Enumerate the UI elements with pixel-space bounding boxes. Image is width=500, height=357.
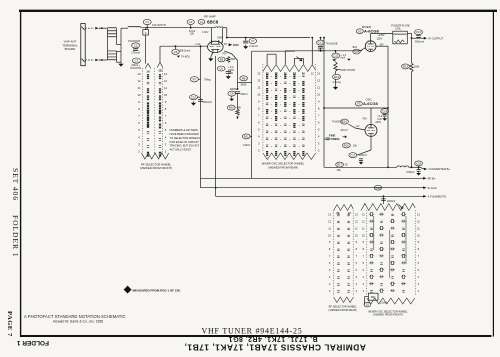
svg-text:8: 8 [363,247,365,251]
svg-text:11: 11 [257,86,260,90]
svg-text:56Ω: 56Ω [231,58,236,61]
svg-text:4: 4 [318,135,320,139]
grid resistor to test point [334,62,337,71]
svg-text:7: 7 [363,254,365,258]
svg-text:500mmf: 500mmf [203,101,212,104]
svg-text:3: 3 [356,282,358,286]
RF selector wheel viewed from rear [328,212,358,292]
wheel3 connects to filament bus [383,196,385,204]
svg-text:BIB-2mmf: BIB-2mmf [180,49,191,52]
svg-text:1.8mf: 1.8mf [202,31,209,34]
svg-text:C15: C15 [416,30,421,34]
svg-text:13A-NOTCH: 13A-NOTCH [152,24,166,27]
wheel1 top contact arrows [145,64,151,69]
svg-text:4: 4 [165,135,167,139]
osc grid components C16 10mmf [341,119,349,124]
wheel1 contact columns [147,74,149,79]
svg-text:-1.4V: -1.4V [195,43,201,46]
svg-text:6: 6 [363,261,365,265]
svg-text:6: 6 [356,261,358,265]
osc tube V3 [365,124,377,136]
R8 560K on divider [240,76,248,81]
svg-text:R7: R7 [193,77,197,81]
svg-text:R17: R17 [337,163,342,167]
svg-text:+135V: +135V [378,34,385,37]
svg-text:TUNING: TUNING [329,137,340,141]
VHF antenna terminal board [81,24,85,66]
wire into wheel2 left [238,82,252,84]
svg-text:R13: R13 [334,75,339,79]
svg-text:C10: C10 [191,95,196,99]
wheel3-left top sawtooth [334,205,354,211]
svg-text:1.5mH: 1.5mH [380,301,388,304]
svg-text:10k: 10k [353,144,358,147]
balun coil L1 top winding [108,27,117,30]
svg-text:8: 8 [418,247,420,251]
svg-text:C14: C14 [354,50,359,54]
svg-text:C13: C13 [333,54,338,58]
svg-text:V3: V3 [357,102,361,106]
svg-text:6: 6 [418,261,420,265]
svg-text:2: 2 [318,149,320,153]
svg-text:5: 5 [258,128,260,132]
wheel2 top sawtooth [263,65,316,72]
svg-text:4.7meg: 4.7meg [332,81,341,84]
svg-text:ON-NOTE: ON-NOTE [130,67,141,70]
svg-text:ACTUALLY EXIST.: ACTUALLY EXIST. [170,147,192,151]
tube cathode to ground [211,52,213,56]
svg-text:13: 13 [355,212,358,216]
svg-text:560K: 560K [241,83,247,86]
svg-text:7: 7 [209,42,210,44]
RF selector wheel viewed from front [137,72,167,154]
border frame [19,10,497,12]
R13 4.7meg [333,74,341,79]
svg-text:2: 2 [329,289,331,293]
svg-text:11: 11 [138,86,141,90]
osc injection trimmer C13 [332,53,340,58]
osc bypass C17 1000mf [349,153,357,158]
svg-text:1B: 1B [336,212,339,215]
svg-text:5: 5 [418,268,420,272]
wheel2 bottom zigzag [263,153,316,160]
svg-text:R15: R15 [403,65,408,69]
balun interconnect wires [107,39,109,52]
svg-text:3: 3 [258,142,260,146]
svg-text:3: 3 [165,142,167,146]
svg-text:160V: 160V [233,44,239,47]
svg-text:Howard W. Sams & Co., Inc. 195: Howard W. Sams & Co., Inc. 1958 [53,320,103,324]
svg-text:3: 3 [418,282,420,286]
AGC line capacitor C20 [374,185,381,190]
svg-text:13: 13 [137,72,141,76]
svg-text:12: 12 [164,79,168,83]
svg-text:7A NO10B: 7A NO10B [326,43,338,46]
svg-text:A PHOTOFACT STANDARD NOTATION: A PHOTOFACT STANDARD NOTATION SCHEMATIC [24,314,126,319]
svg-text:5: 5 [329,268,331,272]
svg-text:C7: C7 [251,39,255,43]
svg-text:4: 4 [418,275,420,279]
wheel3-right bottom zigzag [367,298,415,304]
svg-text:500mmf: 500mmf [415,40,424,43]
antenna lead wires [85,27,94,29]
svg-text:A-6CG8: A-6CG8 [363,101,378,106]
svg-text:RF AMP: RF AMP [204,15,216,19]
svg-text:(VIEWED FROM REAR): (VIEWED FROM REAR) [328,308,356,312]
svg-text:X FILAMENTS: X FILAMENTS [428,195,446,199]
C9 500mf bypass [237,88,239,90]
svg-text:13: 13 [362,212,365,216]
svg-text:C9: C9 [230,92,234,96]
svg-text:13: 13 [417,212,420,216]
plate load bus to mixer [227,37,310,39]
svg-text:1000mf: 1000mf [387,200,396,203]
svg-text:6: 6 [258,121,260,125]
svg-text:1000mf: 1000mf [358,154,367,157]
MIXER-OSC selector wheel viewed from front [362,212,420,292]
svg-text:5: 5 [363,268,365,272]
svg-text:1000mf: 1000mf [406,171,414,174]
svg-text:10: 10 [328,233,331,237]
svg-text:3: 3 [329,282,331,286]
svg-text:12: 12 [257,79,261,83]
svg-text:4: 4 [138,135,140,139]
svg-text:1e: 1e [302,71,305,75]
svg-text:FOLDER 1: FOLDER 1 [16,339,49,346]
svg-text:A-6CG8: A-6CG8 [364,29,379,34]
svg-text:13: 13 [317,72,321,76]
wheel1 bottom zigzag [142,153,169,159]
svg-text:5: 5 [318,128,320,132]
svg-text:TO SELECTOR WHEELS: TO SELECTOR WHEELS [170,136,201,140]
converter B+ bus [324,166,397,168]
svg-text:COIL: COIL [395,26,402,30]
svg-text:11: 11 [417,226,420,230]
R17 3.9k 15k divider [336,162,344,167]
svg-text:2: 2 [418,289,420,293]
svg-text:7: 7 [165,114,167,118]
svg-text:12K: 12K [190,33,195,36]
RF B+ bus [201,177,425,179]
svg-text:100k: 100k [414,65,420,68]
svg-text:3: 3 [363,282,365,286]
svg-text:-70V: -70V [221,52,226,55]
channel strip box 2 [143,30,149,35]
wheel1 centre dashed divider [153,68,155,153]
svg-text:9: 9 [418,240,420,244]
svg-text:C3: C3 [135,59,139,63]
svg-text:10: 10 [137,93,141,97]
svg-text:mmf: mmf [377,118,382,121]
wheel3-right column chain wires [373,216,375,250]
AGC decoupling R7 .7meg [190,77,198,82]
osc padder trimmer .5-3mmf [384,107,386,110]
svg-text:7: 7 [356,254,358,258]
svg-text:10: 10 [257,93,261,97]
svg-text:ON-NO106: ON-NO106 [128,40,141,43]
svg-text:2-3mmf: 2-3mmf [249,45,258,48]
svg-text:100mf: 100mf [243,144,250,147]
svg-text:C19: C19 [416,162,421,166]
svg-text:VHF TUNER #94E144-25: VHF TUNER #94E144-25 [201,326,302,335]
svg-text:11: 11 [355,226,358,230]
svg-text:IF AGC: IF AGC [428,186,437,190]
R11 100mf near wheel2 [242,134,250,139]
svg-text:5: 5 [165,128,167,132]
svg-text:170mmf: 170mmf [131,52,140,55]
svg-text:11: 11 [317,86,320,90]
svg-text:HAVE BEEN ASSIGNED: HAVE BEEN ASSIGNED [170,132,199,136]
svg-text:12: 12 [362,219,365,223]
svg-text:3: 3 [318,142,320,146]
RF plate coil [215,26,223,29]
svg-text:TRACING, BUT DO NOT: TRACING, BUT DO NOT [170,144,200,148]
svg-text:C6: C6 [219,67,223,71]
svg-text:6: 6 [318,121,320,125]
svg-text:ADMIRAL CHASSIS 17AB1, 17AK1,: ADMIRAL CHASSIS 17AB1, 17AK1, 17B1, [184,342,366,352]
svg-text:4: 4 [258,135,260,139]
svg-text:(VIEWED FROM FRONT): (VIEWED FROM FRONT) [140,166,172,170]
svg-text:7A-NO106: 7A-NO106 [332,120,344,123]
capacitor C3 callout cluster [132,58,140,63]
svg-text:7A-NO3: 7A-NO3 [181,56,190,59]
svg-text:RF B+: RF B+ [428,177,436,181]
svg-text:6BC8: 6BC8 [207,19,219,24]
svg-text:9: 9 [258,100,260,104]
svg-text:5: 5 [356,268,358,272]
svg-text:8: 8 [165,107,167,111]
svg-text:FOLDER 1: FOLDER 1 [11,215,20,257]
svg-text:10: 10 [355,233,358,237]
svg-text:1A: 1A [146,70,150,74]
IF takeoff resistor 100k [411,38,413,63]
mixer plate to picker coil [370,33,372,40]
C10 500mmf on AGC bus [190,95,198,100]
svg-text:11: 11 [362,226,365,230]
R10 68K to B+ [227,105,235,110]
svg-text:9: 9 [318,100,320,104]
svg-text:2: 2 [258,149,260,153]
svg-text:C1: C1 [145,20,149,24]
svg-text:L5: L5 [366,303,369,307]
grid coupling C5 [175,45,177,47]
grid wire from wheel to tube [159,46,161,62]
svg-text:10: 10 [362,233,365,237]
svg-text:V1: V1 [200,20,204,24]
svg-text:PAGE 7: PAGE 7 [6,311,13,337]
wheel2 feed cascade wires [266,54,268,64]
callout C4 with value [187,20,194,25]
svg-text:R16: R16 [344,144,349,148]
svg-text:C2: C2 [134,44,138,48]
wheel3-left contact marks [337,213,339,215]
measured-from note with diamond [124,286,132,294]
svg-text:MEASURED FROM POS 1 OF CW.: MEASURED FROM POS 1 OF CW. [133,288,181,292]
svg-text:3: 3 [138,142,140,146]
wheel2 contact columns [266,74,268,79]
svg-text:10: 10 [417,233,420,237]
svg-text:12: 12 [328,219,331,223]
svg-text:6: 6 [165,121,167,125]
svg-text:+115V: +115V [375,122,382,124]
svg-text:R8: R8 [242,76,246,80]
svg-text:11: 11 [328,226,331,230]
svg-text:7: 7 [138,114,140,118]
svg-text:9: 9 [138,100,140,104]
svg-text:BOARD: BOARD [65,47,77,51]
svg-text:5: 5 [138,128,140,132]
RF amp tube V1 6BC8 [208,41,224,52]
160V marker [229,43,233,46]
svg-text:2: 2 [221,42,222,44]
svg-text:8: 8 [318,107,320,111]
X filaments bus [216,195,425,197]
svg-text:4: 4 [363,275,365,279]
callout C1 oval [143,19,151,24]
wire antenna to series coil [121,27,128,29]
fine tuning trimmer right of line [326,138,330,140]
grid coupling C12 7A-NO10B [320,37,322,39]
filter cap C6 with FC 150ohm [217,66,225,71]
svg-text:12: 12 [311,71,314,75]
svg-text:10: 10 [164,93,168,97]
long vertical AGC bus [200,46,202,188]
svg-text:12: 12 [137,79,141,83]
svg-text:125V: 125V [377,37,383,40]
svg-text:R10: R10 [229,106,234,110]
wheel2 rotor arrow [297,57,303,62]
svg-text:12: 12 [317,79,321,83]
svg-text:6: 6 [138,121,140,125]
svg-text:7: 7 [329,254,331,258]
svg-text:C12: C12 [318,41,323,45]
svg-text:13: 13 [328,212,331,216]
osc cathode resistor R16 10k [343,143,351,148]
svg-text:8: 8 [258,107,260,111]
vertical line from mixer grid area down [323,38,325,168]
svg-text:10mmf: 10mmf [340,129,348,132]
IF AGC bus [201,187,425,189]
wheel3-right rotor arrow [399,205,404,209]
svg-text:30: 30 [345,164,348,167]
svg-text:SET 406: SET 406 [11,168,20,201]
svg-text:9: 9 [363,240,365,244]
bypass cap C7 to ground [245,38,247,41]
svg-text:DR1: DR1 [371,296,376,299]
svg-text:R11: R11 [244,135,249,139]
svg-text:7: 7 [418,254,420,258]
svg-text:12: 12 [417,219,420,223]
screen resistor R5 56 ohm [218,57,225,62]
wire to RF wheel column A [145,35,147,64]
svg-text:7: 7 [258,114,260,118]
svg-text:(VIEWED FROM FRONT): (VIEWED FROM FRONT) [373,313,403,317]
svg-text:9: 9 [329,240,331,244]
svg-text:8: 8 [329,247,331,251]
svg-text:C5: C5 [174,50,178,54]
svg-text:R5: R5 [220,58,224,62]
svg-text:8: 8 [138,107,140,111]
mixer osc selector wheel viewed from rear [251,51,253,178]
svg-text:2: 2 [356,289,358,293]
svg-text:NUMBERS & LETTERS: NUMBERS & LETTERS [170,128,199,132]
wheel3-right top sawtooth [361,204,415,211]
svg-text:2: 2 [363,289,365,293]
coil output wire to IF [407,32,411,34]
svg-text:7: 7 [318,114,320,118]
svg-text:2: 2 [145,31,147,35]
svg-text:4: 4 [329,275,331,279]
svg-text:V2: V2 [358,29,362,33]
svg-text:500mf: 500mf [241,93,248,96]
svg-text:FOR EASE OF CIRCUIT: FOR EASE OF CIRCUIT [170,140,200,144]
svg-text:6: 6 [329,261,331,265]
svg-text:13: 13 [257,72,261,76]
svg-text:9: 9 [165,100,167,104]
svg-text:11: 11 [164,86,167,90]
svg-text:12: 12 [355,219,358,223]
svg-text:2: 2 [165,149,167,153]
svg-text:C4: C4 [189,20,193,24]
svg-text:10: 10 [317,93,321,97]
svg-text:1A: 1A [348,212,351,215]
svg-text:BLK: BLK [353,46,358,49]
svg-text:CONVERTER B+: CONVERTER B+ [428,167,450,171]
svg-text:8: 8 [356,247,358,251]
svg-text:mmf: mmf [340,57,345,60]
wheel1 dashed edges [142,68,144,153]
svg-text:15k: 15k [337,169,342,172]
series coil L2 [128,25,140,28]
svg-text:4: 4 [356,275,358,279]
svg-text:2: 2 [138,149,140,153]
svg-text:F5A: F5A [363,118,368,121]
svg-text:C17: C17 [350,153,355,157]
wheel2 dashed edges [262,64,264,152]
wheel3-left bottom zigzag [334,297,354,303]
cathode bus vertical [215,56,217,196]
ground below balun [117,61,122,63]
balun coil L1 bottom winding [108,50,117,53]
svg-text:13: 13 [164,72,168,76]
svg-text:C20: C20 [376,186,381,190]
svg-text:B, 17J1, 17K1, 4R2, 8G1: B, 17J1, 17K1, 4R2, 8G1 [228,335,317,342]
svg-text:9: 9 [356,240,358,244]
svg-text:1B: 1B [158,69,162,73]
mixer tube V2 [365,41,376,52]
svg-text:IF OUTPUT: IF OUTPUT [428,36,443,40]
svg-text:C18: C18 [382,109,387,113]
drive coil DR1 [368,293,378,300]
svg-text:(VIEWED FROM REAR): (VIEWED FROM REAR) [268,165,299,169]
wheel2 left and right number columns [257,72,320,153]
svg-text:TEST POINT: TEST POINT [340,68,356,72]
svg-text:.7Meg: .7Meg [203,78,211,82]
osc plate feed wire [324,107,388,109]
